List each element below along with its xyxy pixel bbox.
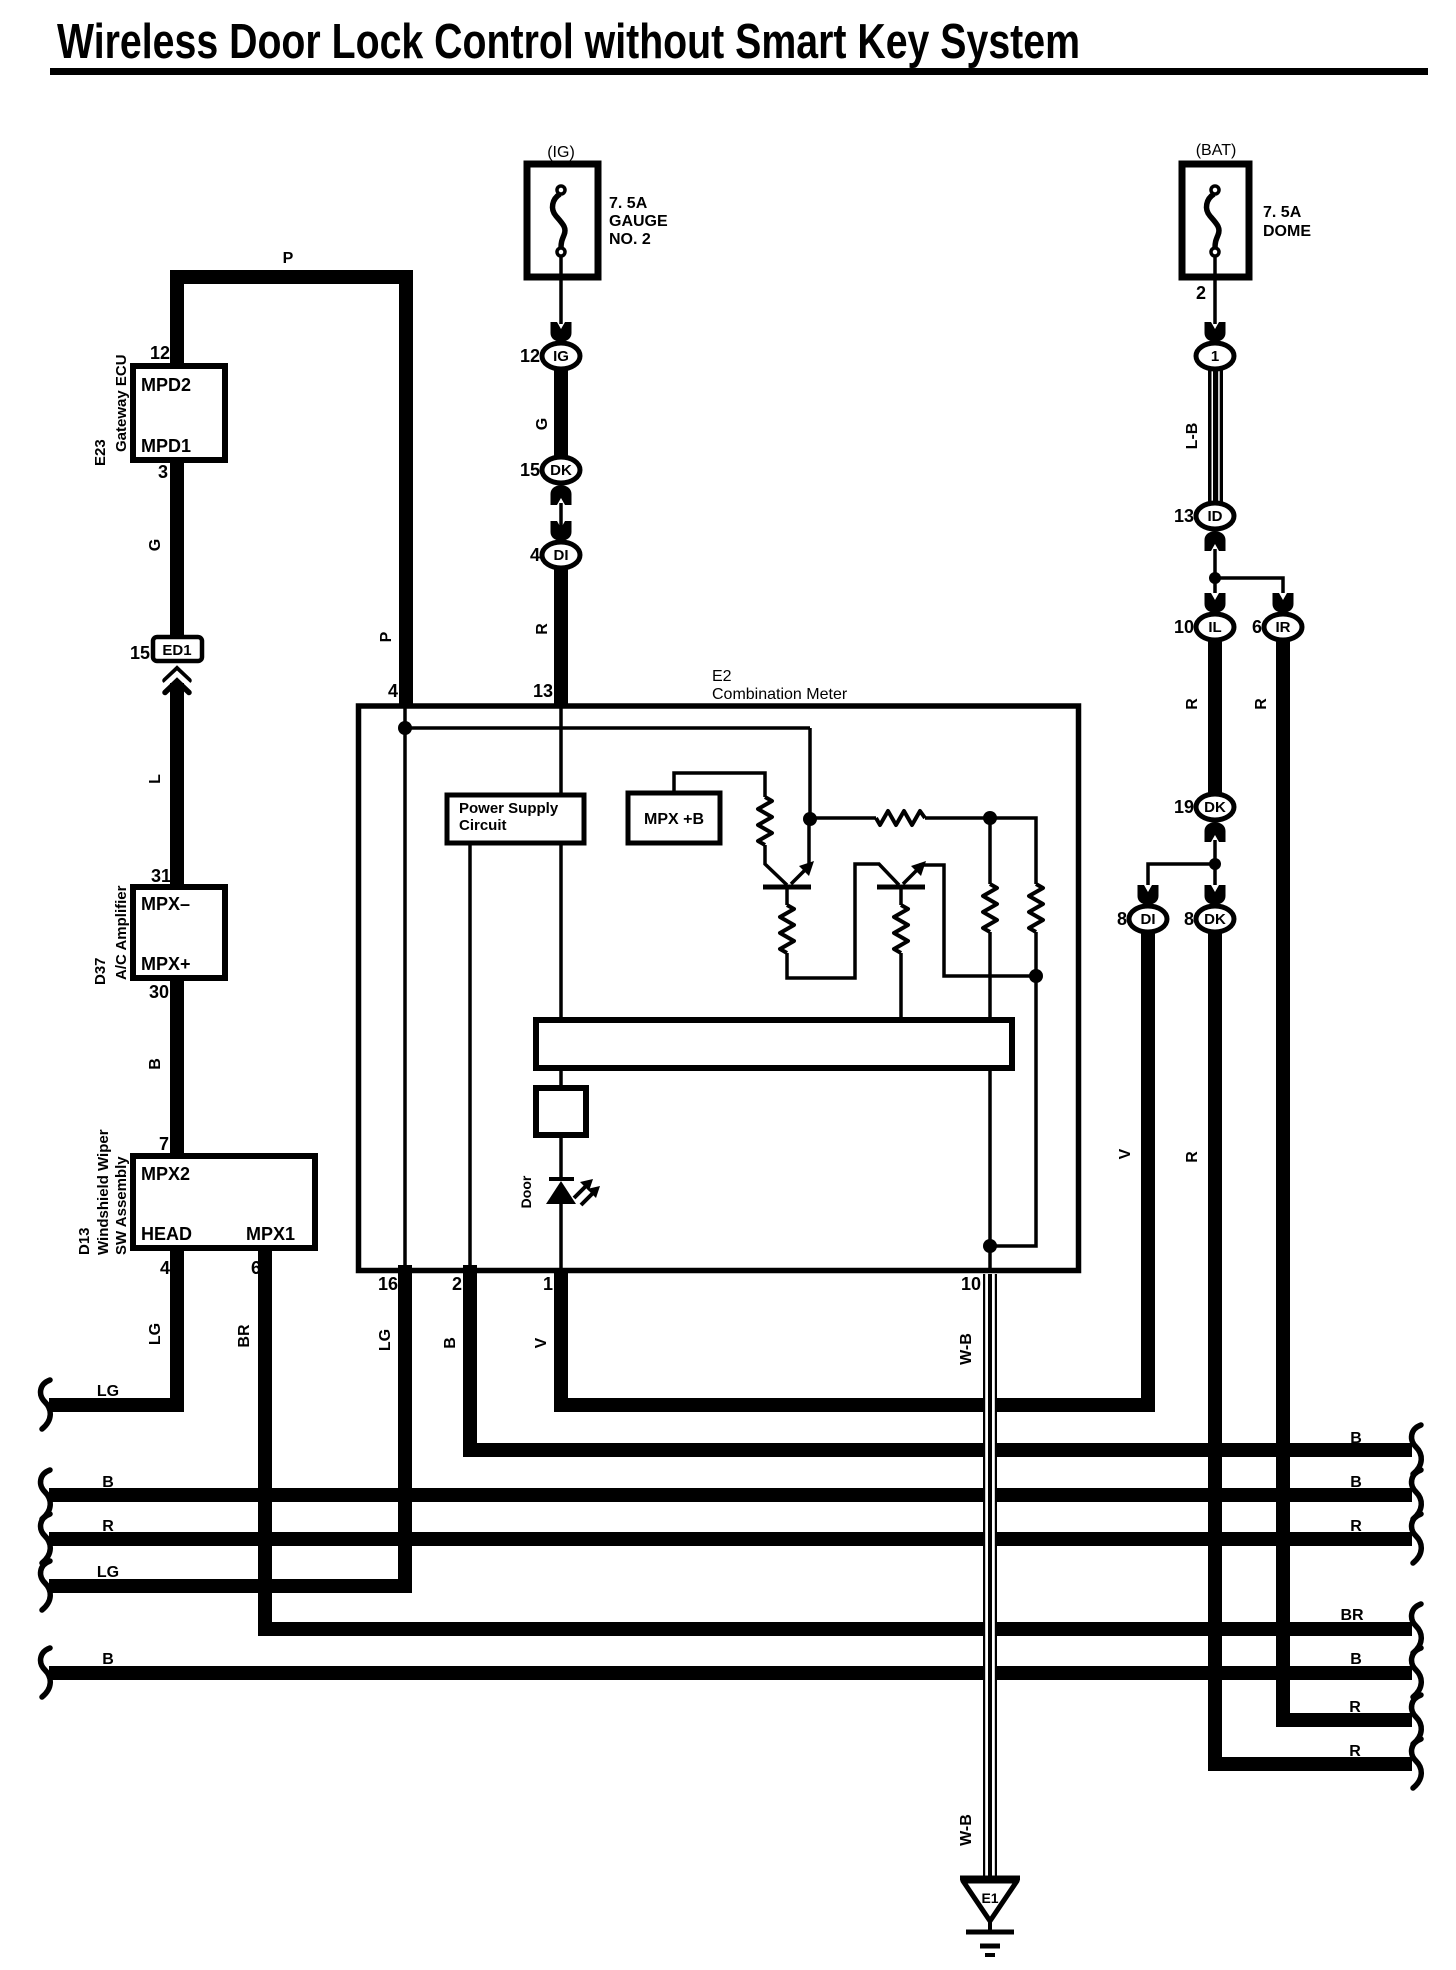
connector oval DI pin 4 bbox=[542, 542, 580, 568]
wire B : to wiper switch bbox=[170, 978, 184, 1160]
svg-text:DK: DK bbox=[1204, 799, 1226, 816]
wire R : IL to DK bbox=[1208, 631, 1222, 796]
connector arrow into 1 bbox=[1205, 322, 1226, 342]
svg-text:7. 5A: 7. 5A bbox=[609, 195, 648, 212]
svg-text:B: B bbox=[1350, 1430, 1362, 1447]
svg-text:4: 4 bbox=[160, 1258, 170, 1278]
svg-text:LG: LG bbox=[377, 1329, 394, 1351]
wire internal bus top bbox=[405, 726, 810, 730]
wire Q1 emitter bbox=[785, 887, 789, 905]
svg-text:MPX2: MPX2 bbox=[141, 1164, 190, 1184]
connector arrow into DI bbox=[551, 521, 572, 541]
A/C amplifier D37 box bbox=[133, 887, 225, 978]
svg-text:10: 10 bbox=[1174, 617, 1194, 637]
svg-text:G: G bbox=[147, 539, 164, 551]
wire to horizontal resistor bbox=[810, 816, 876, 820]
svg-text:L: L bbox=[147, 774, 164, 784]
svg-text:L-B: L-B bbox=[1184, 423, 1201, 450]
svg-text:Circuit: Circuit bbox=[459, 817, 507, 834]
svg-text:6: 6 bbox=[1252, 617, 1262, 637]
wire R1 to Q1 bbox=[765, 845, 787, 885]
wire pin4 internal bbox=[403, 706, 407, 1270]
svg-text:IG: IG bbox=[553, 348, 569, 365]
svg-text:LG: LG bbox=[97, 1383, 119, 1400]
resistor R2 horizontal bbox=[876, 811, 925, 825]
connector arrow into IL bbox=[1205, 593, 1226, 613]
svg-text:DI: DI bbox=[1141, 911, 1156, 928]
node junction to DI bbox=[1209, 858, 1221, 870]
wire R : DK8 down to bottom right bbox=[1215, 931, 1412, 1764]
svg-text:1: 1 bbox=[1211, 348, 1219, 365]
svg-text:BR: BR bbox=[1340, 1607, 1364, 1624]
wire continuation brace B right bbox=[1412, 1425, 1422, 1474]
connector oval DK pin 19 bbox=[1196, 794, 1234, 820]
connector oval ID pin 13 bbox=[1196, 503, 1234, 529]
svg-text:R: R bbox=[102, 1518, 114, 1535]
svg-text:2: 2 bbox=[1196, 283, 1206, 303]
svg-text:DOME: DOME bbox=[1263, 223, 1311, 240]
bus wire B upper bbox=[49, 1488, 1412, 1502]
svg-text:(IG): (IG) bbox=[547, 144, 575, 161]
bus wire LG bbox=[41, 1561, 51, 1610]
svg-text:D37: D37 bbox=[92, 957, 109, 985]
svg-text:Power Supply: Power Supply bbox=[459, 800, 559, 817]
svg-text:ID: ID bbox=[1208, 508, 1223, 525]
svg-text:R: R bbox=[1184, 1151, 1201, 1163]
svg-text:B: B bbox=[1350, 1474, 1362, 1491]
svg-text:13: 13 bbox=[1174, 506, 1194, 526]
svg-text:R: R bbox=[1350, 1518, 1362, 1535]
svg-text:30: 30 bbox=[149, 982, 169, 1002]
svg-text:W-B: W-B bbox=[958, 1333, 975, 1365]
svg-text:R: R bbox=[1253, 698, 1270, 710]
svg-text:E1: E1 bbox=[981, 1890, 998, 1906]
wire LG : meter pin 16 down bbox=[49, 1265, 405, 1586]
wire to Q1 collector bbox=[808, 728, 812, 819]
connector arrow into IR bbox=[1273, 593, 1294, 613]
ground E1 bbox=[960, 1878, 1020, 1955]
connector oval DK pin 8 bbox=[1196, 906, 1234, 932]
node pin4 bbox=[398, 721, 412, 735]
svg-text:IR: IR bbox=[1276, 619, 1291, 636]
wire pin13 internal bbox=[559, 706, 563, 798]
svg-text:IL: IL bbox=[1208, 619, 1221, 636]
node pin10 bbox=[983, 1239, 997, 1253]
wire R6 node down to pin10 line bbox=[990, 976, 1036, 1246]
svg-text:D13: D13 bbox=[76, 1227, 93, 1255]
svg-text:B: B bbox=[102, 1651, 114, 1668]
svg-text:2: 2 bbox=[452, 1274, 462, 1294]
svg-text:GAUGE: GAUGE bbox=[609, 213, 668, 230]
wire to resistor R6 bbox=[990, 818, 1036, 884]
gateway ECU E23 box bbox=[133, 366, 225, 460]
connector oval IL pin 10 bbox=[1196, 614, 1234, 640]
resistor R5 bbox=[983, 884, 997, 932]
svg-text:10: 10 bbox=[961, 1274, 981, 1294]
wire pin13 line below power box bbox=[559, 843, 563, 1022]
svg-text:(BAT): (BAT) bbox=[1196, 142, 1237, 159]
wire Q2 collector to node bbox=[921, 865, 1036, 976]
wire V : DI8 down and left to meter pin 1 bbox=[561, 931, 1148, 1405]
wire L : to A/C amplifier bbox=[170, 683, 184, 890]
svg-text:NO. 2: NO. 2 bbox=[609, 231, 651, 248]
wire DK to DI bbox=[559, 503, 563, 528]
wire MPX+B to R1 bbox=[674, 773, 765, 797]
svg-text:19: 19 bbox=[1174, 797, 1194, 817]
wire continuation brace LG left bbox=[41, 1380, 51, 1429]
wire branch to IR bbox=[1215, 578, 1283, 593]
driver box bbox=[536, 1088, 586, 1135]
connector arrow up below DK bbox=[551, 485, 572, 505]
wire bar to driver box bbox=[559, 1068, 563, 1090]
wire L-B : 1 to ID bbox=[1208, 366, 1223, 506]
connector arrow into DI8 bbox=[1138, 885, 1159, 905]
svg-text:8: 8 bbox=[1184, 909, 1194, 929]
svg-text:DK: DK bbox=[1204, 911, 1226, 928]
svg-text:LG: LG bbox=[147, 1323, 164, 1345]
wire BR : MPX1 pin 6 to bottom right bbox=[265, 1248, 1412, 1629]
node R6 bottom bbox=[1029, 969, 1043, 983]
wire P : gateway pin 12 up and over to meter pin 4 bbox=[177, 277, 406, 706]
svg-text:MPX–: MPX– bbox=[141, 894, 190, 914]
wire driver to LED bbox=[559, 1135, 563, 1180]
svg-text:Door: Door bbox=[518, 1175, 534, 1208]
connector ED1 pin 15 bbox=[153, 637, 202, 661]
svg-text:7. 5A: 7. 5A bbox=[1263, 204, 1302, 221]
wire fuse IG to connector bbox=[559, 277, 563, 324]
svg-text:MPD1: MPD1 bbox=[141, 436, 191, 456]
svg-text:B: B bbox=[442, 1337, 459, 1349]
svg-text:DI: DI bbox=[554, 547, 569, 564]
svg-text:4: 4 bbox=[530, 545, 540, 565]
MPX +B box bbox=[628, 793, 720, 843]
svg-text:A/C Amplifier: A/C Amplifier bbox=[113, 885, 130, 980]
wire Q1 emitter to Q2 base bbox=[787, 864, 899, 978]
connector arrow up below ID bbox=[1205, 531, 1226, 551]
transistor Q2 bbox=[877, 885, 925, 890]
svg-text:Windshield Wiper: Windshield Wiper bbox=[95, 1129, 112, 1255]
wire branch to DI8 bbox=[1148, 864, 1215, 885]
svg-text:12: 12 bbox=[150, 343, 170, 363]
connector arrow into DK8 bbox=[1205, 885, 1226, 905]
resistor R3 below Q1 bbox=[780, 905, 794, 953]
svg-text:3: 3 bbox=[158, 462, 168, 482]
svg-text:15: 15 bbox=[520, 460, 540, 480]
wire R : DI to meter pin 13 bbox=[554, 560, 568, 706]
svg-text:31: 31 bbox=[151, 866, 171, 886]
title rule bbox=[50, 68, 1428, 75]
svg-text:B: B bbox=[102, 1474, 114, 1491]
svg-text:E2: E2 bbox=[712, 668, 732, 685]
svg-text:R: R bbox=[1349, 1743, 1361, 1760]
bus wire B lower bbox=[49, 1666, 1412, 1680]
power supply circuit box bbox=[447, 795, 584, 843]
LED Door bbox=[549, 1177, 574, 1181]
wire power supply to pin2 bbox=[468, 843, 472, 1270]
wire LG : HEAD pin 4 to left bbox=[49, 1248, 177, 1405]
svg-text:V: V bbox=[1117, 1148, 1134, 1159]
connector oval IR pin 6 bbox=[1264, 614, 1302, 640]
svg-text:Combination Meter: Combination Meter bbox=[712, 686, 848, 703]
svg-text:DK: DK bbox=[550, 462, 572, 479]
windshield wiper SW D13 box bbox=[133, 1156, 315, 1248]
node R2 right bbox=[983, 811, 997, 825]
wire G : gateway to ED1 bbox=[170, 460, 184, 641]
svg-text:Wireless Door Lock Control wit: Wireless Door Lock Control without Smart… bbox=[57, 15, 1080, 69]
svg-text:R: R bbox=[1184, 698, 1201, 710]
svg-text:ED1: ED1 bbox=[162, 642, 191, 659]
connector oval 1 bbox=[1196, 343, 1234, 369]
svg-text:Gateway ECU: Gateway ECU bbox=[113, 354, 130, 452]
svg-text:7: 7 bbox=[159, 1134, 169, 1154]
wire continuation brace BR right bbox=[1412, 1604, 1422, 1653]
svg-text:V: V bbox=[533, 1337, 550, 1348]
wire DK19 to DI/DK junction bbox=[1213, 840, 1217, 885]
resistor R4 below Q2 bbox=[894, 905, 908, 953]
svg-text:R: R bbox=[1349, 1699, 1361, 1716]
svg-text:16: 16 bbox=[378, 1274, 398, 1294]
transistor Q1 bbox=[763, 885, 811, 890]
svg-text:12: 12 bbox=[520, 346, 540, 366]
bus wire R bbox=[49, 1532, 1412, 1546]
node Q1 collector bbox=[803, 812, 817, 826]
svg-text:R: R bbox=[534, 623, 551, 635]
wire fuse DOME pin 2 bbox=[1213, 277, 1217, 324]
svg-text:MPX1: MPX1 bbox=[246, 1224, 295, 1244]
svg-text:15: 15 bbox=[130, 643, 150, 663]
wire R : IR down to bottom right bbox=[1283, 631, 1412, 1720]
wire to resistor R5 bbox=[988, 818, 992, 884]
svg-text:HEAD: HEAD bbox=[141, 1224, 192, 1244]
wire B : meter pin 2 down and right bbox=[470, 1265, 1412, 1450]
svg-text:G: G bbox=[534, 418, 551, 430]
svg-text:LG: LG bbox=[97, 1564, 119, 1581]
IC bar bbox=[536, 1020, 1012, 1068]
wire bar to pin10 bbox=[988, 1068, 992, 1270]
svg-text:MPX+: MPX+ bbox=[141, 954, 191, 974]
node junction to IR bbox=[1209, 572, 1221, 584]
svg-text:MPD2: MPD2 bbox=[141, 375, 191, 395]
connector arrow up below ED1 bbox=[164, 666, 190, 693]
resistor R1 bbox=[758, 797, 772, 845]
connector arrow up below DK19 bbox=[1205, 822, 1226, 842]
svg-text:8: 8 bbox=[1117, 909, 1127, 929]
connector oval DK pin 15 bbox=[542, 457, 580, 483]
wire ID to IL/IR junction bbox=[1213, 549, 1217, 593]
combination meter E2 box bbox=[359, 706, 1079, 1271]
connector arrow into IG bbox=[551, 322, 572, 342]
wire continuation brace R right bbox=[1412, 1695, 1422, 1744]
wire continuation brace R2 right bbox=[1412, 1739, 1422, 1788]
svg-text:MPX +B: MPX +B bbox=[644, 811, 704, 828]
svg-text:B: B bbox=[1350, 1651, 1362, 1668]
connector oval DI pin 8 bbox=[1129, 906, 1167, 932]
svg-text:W-B: W-B bbox=[958, 1814, 975, 1846]
connector oval IG pin 12 bbox=[542, 343, 580, 369]
svg-text:SW Assembly: SW Assembly bbox=[113, 1156, 130, 1255]
svg-text:1: 1 bbox=[543, 1274, 553, 1294]
svg-text:B: B bbox=[147, 1058, 164, 1070]
svg-text:4: 4 bbox=[388, 681, 398, 701]
svg-text:P: P bbox=[378, 631, 395, 642]
wire Q2 emitter bbox=[899, 887, 903, 905]
wire G : IG to DK bbox=[554, 360, 568, 462]
svg-text:P: P bbox=[283, 250, 294, 267]
svg-text:BR: BR bbox=[236, 1324, 253, 1348]
svg-text:13: 13 bbox=[533, 681, 553, 701]
svg-text:E23: E23 bbox=[92, 439, 109, 466]
wire W-B : meter pin 10 to ground E1 bbox=[983, 1274, 997, 1878]
resistor R6 bbox=[1029, 884, 1043, 932]
